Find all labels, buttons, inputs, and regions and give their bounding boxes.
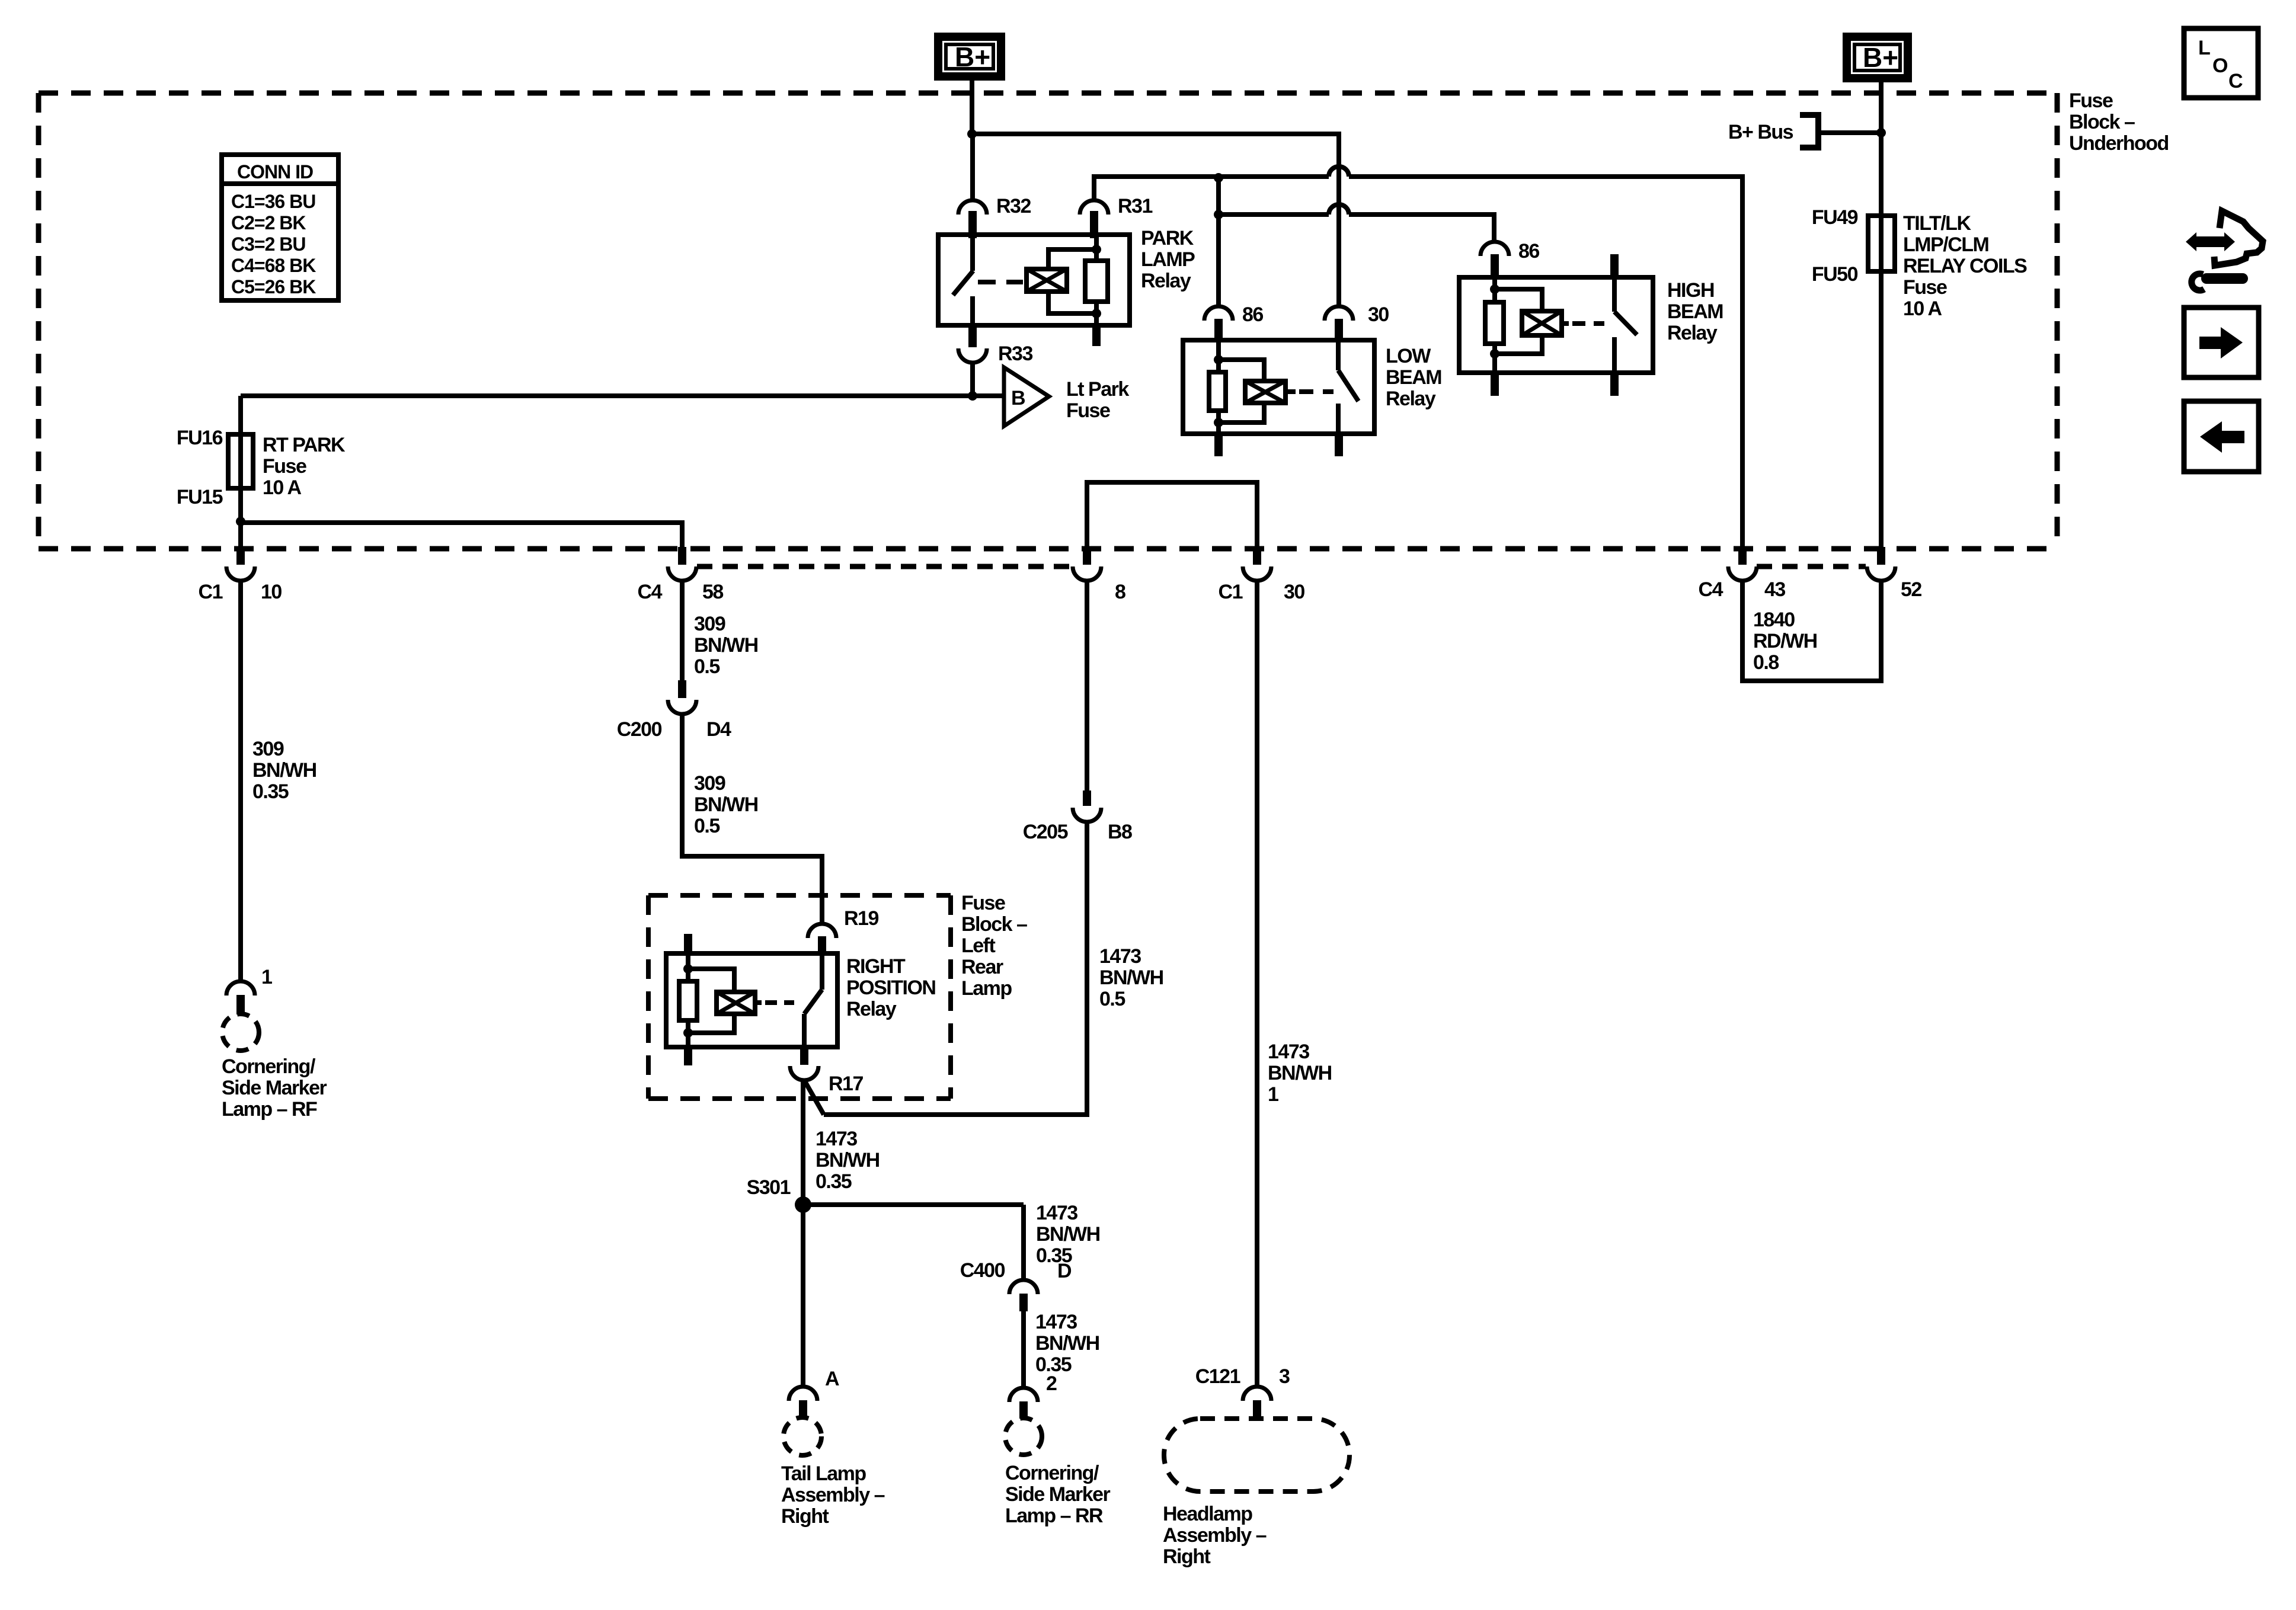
svg-text:CONN ID: CONN ID <box>237 161 313 183</box>
svg-text:HIGH: HIGH <box>1667 279 1714 302</box>
svg-text:BN/WH: BN/WH <box>1099 966 1163 989</box>
svg-text:8: 8 <box>1115 581 1125 603</box>
svg-text:1840: 1840 <box>1753 609 1795 631</box>
svg-text:10 A: 10 A <box>1903 297 1942 320</box>
svg-text:FU49: FU49 <box>1812 206 1858 229</box>
svg-text:0.5: 0.5 <box>694 655 720 678</box>
svg-text:Underhood: Underhood <box>2069 132 2169 155</box>
svg-text:B+: B+ <box>1863 42 1898 73</box>
svg-text:0.5: 0.5 <box>694 815 720 837</box>
svg-text:Headlamp: Headlamp <box>1163 1503 1252 1525</box>
svg-text:BN/WH: BN/WH <box>694 634 758 657</box>
svg-text:L: L <box>2198 37 2210 59</box>
svg-text:Fuse: Fuse <box>1066 399 1110 422</box>
svg-text:Relay: Relay <box>1141 270 1191 292</box>
svg-text:B+ Bus: B+ Bus <box>1728 121 1793 143</box>
svg-text:Relay: Relay <box>846 998 897 1020</box>
svg-text:Side Marker: Side Marker <box>1005 1483 1111 1506</box>
svg-text:C2=2 BK: C2=2 BK <box>231 212 306 233</box>
svg-text:Relay: Relay <box>1667 322 1718 344</box>
svg-text:1473: 1473 <box>1099 945 1141 968</box>
svg-text:A: A <box>825 1368 839 1390</box>
svg-text:Cornering/: Cornering/ <box>222 1055 316 1078</box>
svg-text:B8: B8 <box>1108 821 1132 843</box>
svg-text:R33: R33 <box>998 343 1032 365</box>
svg-text:1473: 1473 <box>1036 1202 1077 1224</box>
svg-text:C4: C4 <box>1699 578 1723 601</box>
svg-text:309: 309 <box>694 772 725 795</box>
svg-text:52: 52 <box>1901 578 1921 601</box>
svg-text:BN/WH: BN/WH <box>1036 1223 1100 1246</box>
svg-text:TILT/LK: TILT/LK <box>1903 212 1971 235</box>
svg-text:POSITION: POSITION <box>846 977 935 999</box>
svg-text:Assembly –: Assembly – <box>781 1484 885 1506</box>
svg-text:C: C <box>2228 70 2243 92</box>
svg-text:1473: 1473 <box>1268 1041 1309 1063</box>
svg-text:R32: R32 <box>996 195 1031 217</box>
svg-text:O: O <box>2212 55 2228 77</box>
svg-text:Lamp: Lamp <box>961 977 1012 1000</box>
svg-text:FU50: FU50 <box>1812 263 1858 286</box>
svg-text:1: 1 <box>261 966 272 988</box>
svg-text:Lamp – RF: Lamp – RF <box>222 1098 317 1121</box>
svg-text:1473: 1473 <box>816 1128 857 1150</box>
svg-text:1: 1 <box>1268 1083 1278 1106</box>
svg-text:86: 86 <box>1242 303 1263 326</box>
svg-text:Fuse: Fuse <box>2069 89 2113 112</box>
svg-text:309: 309 <box>694 613 725 635</box>
svg-text:58: 58 <box>702 581 723 603</box>
svg-text:RT PARK: RT PARK <box>263 434 346 456</box>
svg-text:BN/WH: BN/WH <box>1268 1062 1332 1084</box>
svg-text:Rear: Rear <box>961 956 1003 978</box>
svg-text:C1: C1 <box>199 581 223 603</box>
svg-text:BN/WH: BN/WH <box>694 793 758 816</box>
svg-text:Side Marker: Side Marker <box>222 1077 327 1099</box>
svg-text:BN/WH: BN/WH <box>816 1149 880 1172</box>
svg-text:0.5: 0.5 <box>1099 988 1125 1010</box>
svg-text:Block –: Block – <box>961 913 1027 936</box>
svg-text:B: B <box>1011 387 1025 409</box>
svg-text:Right: Right <box>781 1505 829 1528</box>
svg-text:10 A: 10 A <box>263 476 302 499</box>
svg-text:C200: C200 <box>617 718 662 741</box>
svg-text:309: 309 <box>252 738 284 760</box>
svg-text:FU16: FU16 <box>177 427 223 449</box>
svg-text:0.35: 0.35 <box>252 780 289 803</box>
svg-text:C400: C400 <box>960 1259 1005 1282</box>
svg-text:B+: B+ <box>955 41 990 72</box>
svg-text:Left: Left <box>961 934 996 957</box>
svg-text:Right: Right <box>1163 1545 1211 1568</box>
svg-text:Lt Park: Lt Park <box>1066 378 1129 401</box>
svg-text:R31: R31 <box>1118 195 1152 217</box>
svg-text:BN/WH: BN/WH <box>1035 1332 1099 1355</box>
svg-text:30: 30 <box>1284 581 1304 603</box>
svg-text:FU15: FU15 <box>177 486 223 508</box>
svg-text:R17: R17 <box>829 1073 863 1095</box>
svg-text:3: 3 <box>1279 1365 1290 1388</box>
svg-text:RELAY COILS: RELAY COILS <box>1903 255 2027 277</box>
svg-text:0.35: 0.35 <box>1035 1353 1072 1376</box>
svg-text:0.35: 0.35 <box>816 1170 852 1193</box>
svg-text:Fuse: Fuse <box>961 892 1005 914</box>
svg-text:LMP/CLM: LMP/CLM <box>1903 233 1989 256</box>
svg-text:Relay: Relay <box>1386 388 1436 410</box>
svg-text:BN/WH: BN/WH <box>252 759 316 782</box>
svg-text:Lamp – RR: Lamp – RR <box>1005 1505 1103 1527</box>
svg-text:R19: R19 <box>844 907 878 930</box>
svg-text:43: 43 <box>1764 578 1785 601</box>
svg-text:Cornering/: Cornering/ <box>1005 1462 1099 1484</box>
svg-text:C5=26 BK: C5=26 BK <box>231 276 316 297</box>
svg-text:Fuse: Fuse <box>263 455 306 478</box>
svg-text:C1: C1 <box>1219 581 1243 603</box>
svg-text:0.35: 0.35 <box>1036 1244 1072 1267</box>
svg-text:RIGHT: RIGHT <box>846 955 906 978</box>
svg-text:C1=36 BU: C1=36 BU <box>231 191 315 212</box>
svg-text:1473: 1473 <box>1035 1311 1077 1333</box>
svg-text:BEAM: BEAM <box>1386 366 1441 389</box>
svg-text:C4=68 BK: C4=68 BK <box>231 255 316 276</box>
svg-text:Assembly –: Assembly – <box>1163 1524 1267 1547</box>
svg-text:C121: C121 <box>1195 1365 1240 1388</box>
svg-text:Block –: Block – <box>2069 111 2135 133</box>
svg-text:BEAM: BEAM <box>1667 300 1723 323</box>
svg-text:Tail Lamp: Tail Lamp <box>781 1462 866 1485</box>
svg-text:Fuse: Fuse <box>1903 276 1947 299</box>
svg-text:C205: C205 <box>1023 821 1068 843</box>
svg-text:LOW: LOW <box>1386 345 1431 367</box>
svg-text:30: 30 <box>1368 303 1389 326</box>
svg-text:RD/WH: RD/WH <box>1753 630 1817 652</box>
svg-text:D4: D4 <box>706 718 731 741</box>
svg-text:86: 86 <box>1518 240 1539 263</box>
svg-text:0.8: 0.8 <box>1753 651 1779 674</box>
svg-text:PARK: PARK <box>1141 227 1194 249</box>
svg-text:C3=2 BU: C3=2 BU <box>231 233 306 255</box>
svg-text:LAMP: LAMP <box>1141 248 1195 271</box>
svg-text:S301: S301 <box>747 1176 791 1199</box>
svg-text:C4: C4 <box>638 581 663 603</box>
svg-text:10: 10 <box>261 581 282 603</box>
